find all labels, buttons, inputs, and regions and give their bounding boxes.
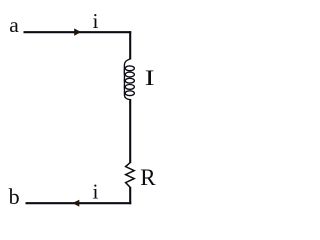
inductor I loop 2: [125, 72, 134, 77]
svg-text:R: R: [140, 165, 156, 190]
wire right vertical upper segment: [129, 31, 131, 59]
svg-text:i: i: [93, 179, 99, 203]
wire top horizontal a to corner: [24, 31, 132, 33]
wire right vertical lower segment: [129, 187, 131, 204]
resistor R zigzag: [126, 163, 135, 188]
svg-text:I: I: [145, 65, 155, 90]
inductor I loop 5: [125, 91, 134, 96]
wire bottom horizontal corner to b: [26, 202, 132, 204]
inductor I loop 3: [125, 78, 134, 83]
current arrow top (i, pointing right): [74, 28, 81, 35]
inductor I loop 1: [125, 66, 134, 71]
wire right vertical middle segment: [129, 99, 131, 163]
inductor I loop 4: [125, 85, 134, 90]
svg-text:b: b: [9, 184, 20, 209]
svg-text:i: i: [93, 9, 99, 33]
inductor I coil left rail: [124, 59, 130, 100]
svg-text:a: a: [9, 13, 19, 37]
current arrow bottom (i, pointing left): [72, 200, 79, 207]
